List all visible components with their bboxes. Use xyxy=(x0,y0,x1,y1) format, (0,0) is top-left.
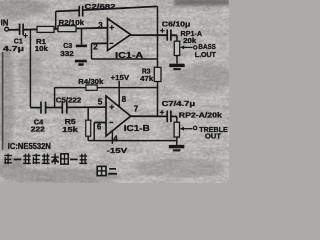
wire xyxy=(176,117,178,123)
pin 8 label xyxy=(122,95,127,104)
wire xyxy=(87,107,89,120)
capacitor C6 xyxy=(160,28,171,40)
svg-text:10k: 10k xyxy=(35,44,49,53)
paper background xyxy=(0,0,229,183)
ground xyxy=(169,145,184,152)
wire xyxy=(97,87,157,89)
C7 label xyxy=(162,99,196,108)
wire xyxy=(157,82,159,117)
resistor R5 xyxy=(86,120,91,136)
wire xyxy=(92,58,158,60)
pin 7 label xyxy=(134,105,139,114)
wire xyxy=(93,123,95,141)
node B xyxy=(55,11,57,29)
IC1-A label xyxy=(115,51,143,60)
C2 label xyxy=(85,2,116,11)
capacitor C1 xyxy=(20,24,28,38)
wire xyxy=(92,42,108,44)
capacitor C2 xyxy=(79,6,83,17)
IC1-B label xyxy=(124,124,150,133)
wire xyxy=(111,131,113,144)
wire xyxy=(23,28,37,30)
RP1-A label xyxy=(181,29,203,45)
svg-text:IC:NE5532N: IC:NE5532N xyxy=(8,142,51,151)
pin 5 label xyxy=(98,97,103,106)
svg-text:C7/4.7μ: C7/4.7μ xyxy=(162,99,196,108)
svg-text:6: 6 xyxy=(97,122,102,131)
wire xyxy=(88,140,177,142)
resistor R3 xyxy=(154,67,161,81)
wire xyxy=(130,34,167,36)
svg-text:C6/10μ: C6/10μ xyxy=(162,20,191,29)
svg-text:IN: IN xyxy=(1,19,9,28)
wire xyxy=(54,28,58,30)
IC type label xyxy=(8,142,51,151)
wire xyxy=(76,27,108,30)
page artifact left line xyxy=(2,52,4,150)
svg-text:4: 4 xyxy=(113,134,118,143)
TREBLE label xyxy=(199,125,228,141)
svg-text:5: 5 xyxy=(98,97,103,106)
C4 label xyxy=(31,117,45,133)
capacitor C5 xyxy=(62,102,67,114)
pin 4 label xyxy=(113,134,118,143)
wire xyxy=(157,6,159,35)
svg-text:222: 222 xyxy=(31,124,45,133)
op-amp U1B xyxy=(106,96,131,136)
svg-text:47k: 47k xyxy=(140,74,154,83)
svg-text:IC1-B: IC1-B xyxy=(124,124,150,133)
RP2-A label xyxy=(179,111,223,120)
svg-text:-15V: -15V xyxy=(107,146,129,155)
wire xyxy=(91,43,93,59)
wire xyxy=(55,87,86,89)
TREBLE output terminal xyxy=(193,126,196,129)
C3 label xyxy=(60,41,73,58)
wire xyxy=(171,34,177,36)
potentiometer RP1-A xyxy=(174,41,192,55)
wire xyxy=(176,35,178,41)
capacitor C3 xyxy=(76,28,87,47)
wire xyxy=(157,36,159,68)
potentiometer RP2-A xyxy=(174,122,192,137)
BASS output terminal xyxy=(194,46,197,49)
svg-text:15k: 15k xyxy=(62,125,78,134)
capacitor C7 xyxy=(160,110,171,122)
svg-text:L.OUT: L.OUT xyxy=(195,50,216,59)
wire xyxy=(67,106,106,108)
svg-text:OUT: OUT xyxy=(205,132,221,141)
svg-text:R4/30k: R4/30k xyxy=(78,77,104,86)
wire xyxy=(94,122,106,124)
resistor R2 xyxy=(58,26,76,32)
wire xyxy=(118,81,120,107)
pin 6 label xyxy=(97,122,102,131)
resistor R1 xyxy=(37,26,54,32)
svg-text:4.7μ: 4.7μ xyxy=(3,44,24,53)
wire xyxy=(46,107,62,109)
op-amp U1A xyxy=(108,19,131,51)
R1 label xyxy=(35,37,49,53)
capacitor C4 xyxy=(41,102,46,114)
-15V label xyxy=(107,146,129,155)
wire xyxy=(54,88,56,108)
R4 label xyxy=(78,77,104,86)
svg-text:3: 3 xyxy=(98,21,103,30)
svg-text:332: 332 xyxy=(60,49,73,58)
svg-text:+15V: +15V xyxy=(111,73,130,82)
svg-text:20k: 20k xyxy=(183,36,197,45)
resistor R4 xyxy=(86,85,97,90)
wire xyxy=(130,115,167,117)
wire xyxy=(83,6,158,10)
node A xyxy=(29,30,31,108)
wire xyxy=(9,29,20,31)
IN label xyxy=(1,19,9,28)
svg-text:R2/10k: R2/10k xyxy=(59,18,85,27)
svg-text:C5/222: C5/222 xyxy=(56,95,82,104)
page artifact top-right shadow xyxy=(174,0,230,6)
svg-text:RP2-A/20k: RP2-A/20k xyxy=(179,111,223,120)
wire xyxy=(176,56,178,64)
wire xyxy=(176,137,178,145)
BASS label xyxy=(195,42,216,59)
caption: another channel identical xyxy=(4,154,87,165)
C6 label xyxy=(162,20,191,29)
R5 label xyxy=(62,117,78,134)
pin 3 label xyxy=(98,21,103,30)
figure 2 label xyxy=(97,166,117,175)
wire xyxy=(30,107,40,109)
svg-text:7: 7 xyxy=(134,105,139,114)
ground xyxy=(169,64,184,70)
wire xyxy=(171,115,177,117)
pin 2 label xyxy=(93,42,98,51)
+15V label xyxy=(111,73,130,82)
svg-text:8: 8 xyxy=(122,95,127,104)
ground xyxy=(75,60,87,66)
input terminal xyxy=(5,27,9,31)
R3 label xyxy=(140,67,154,83)
wire xyxy=(87,136,89,140)
scan stains xyxy=(0,0,235,184)
C5 label xyxy=(56,95,82,104)
R2 label xyxy=(59,18,85,27)
C1 value label xyxy=(3,36,24,53)
wire xyxy=(56,10,79,11)
